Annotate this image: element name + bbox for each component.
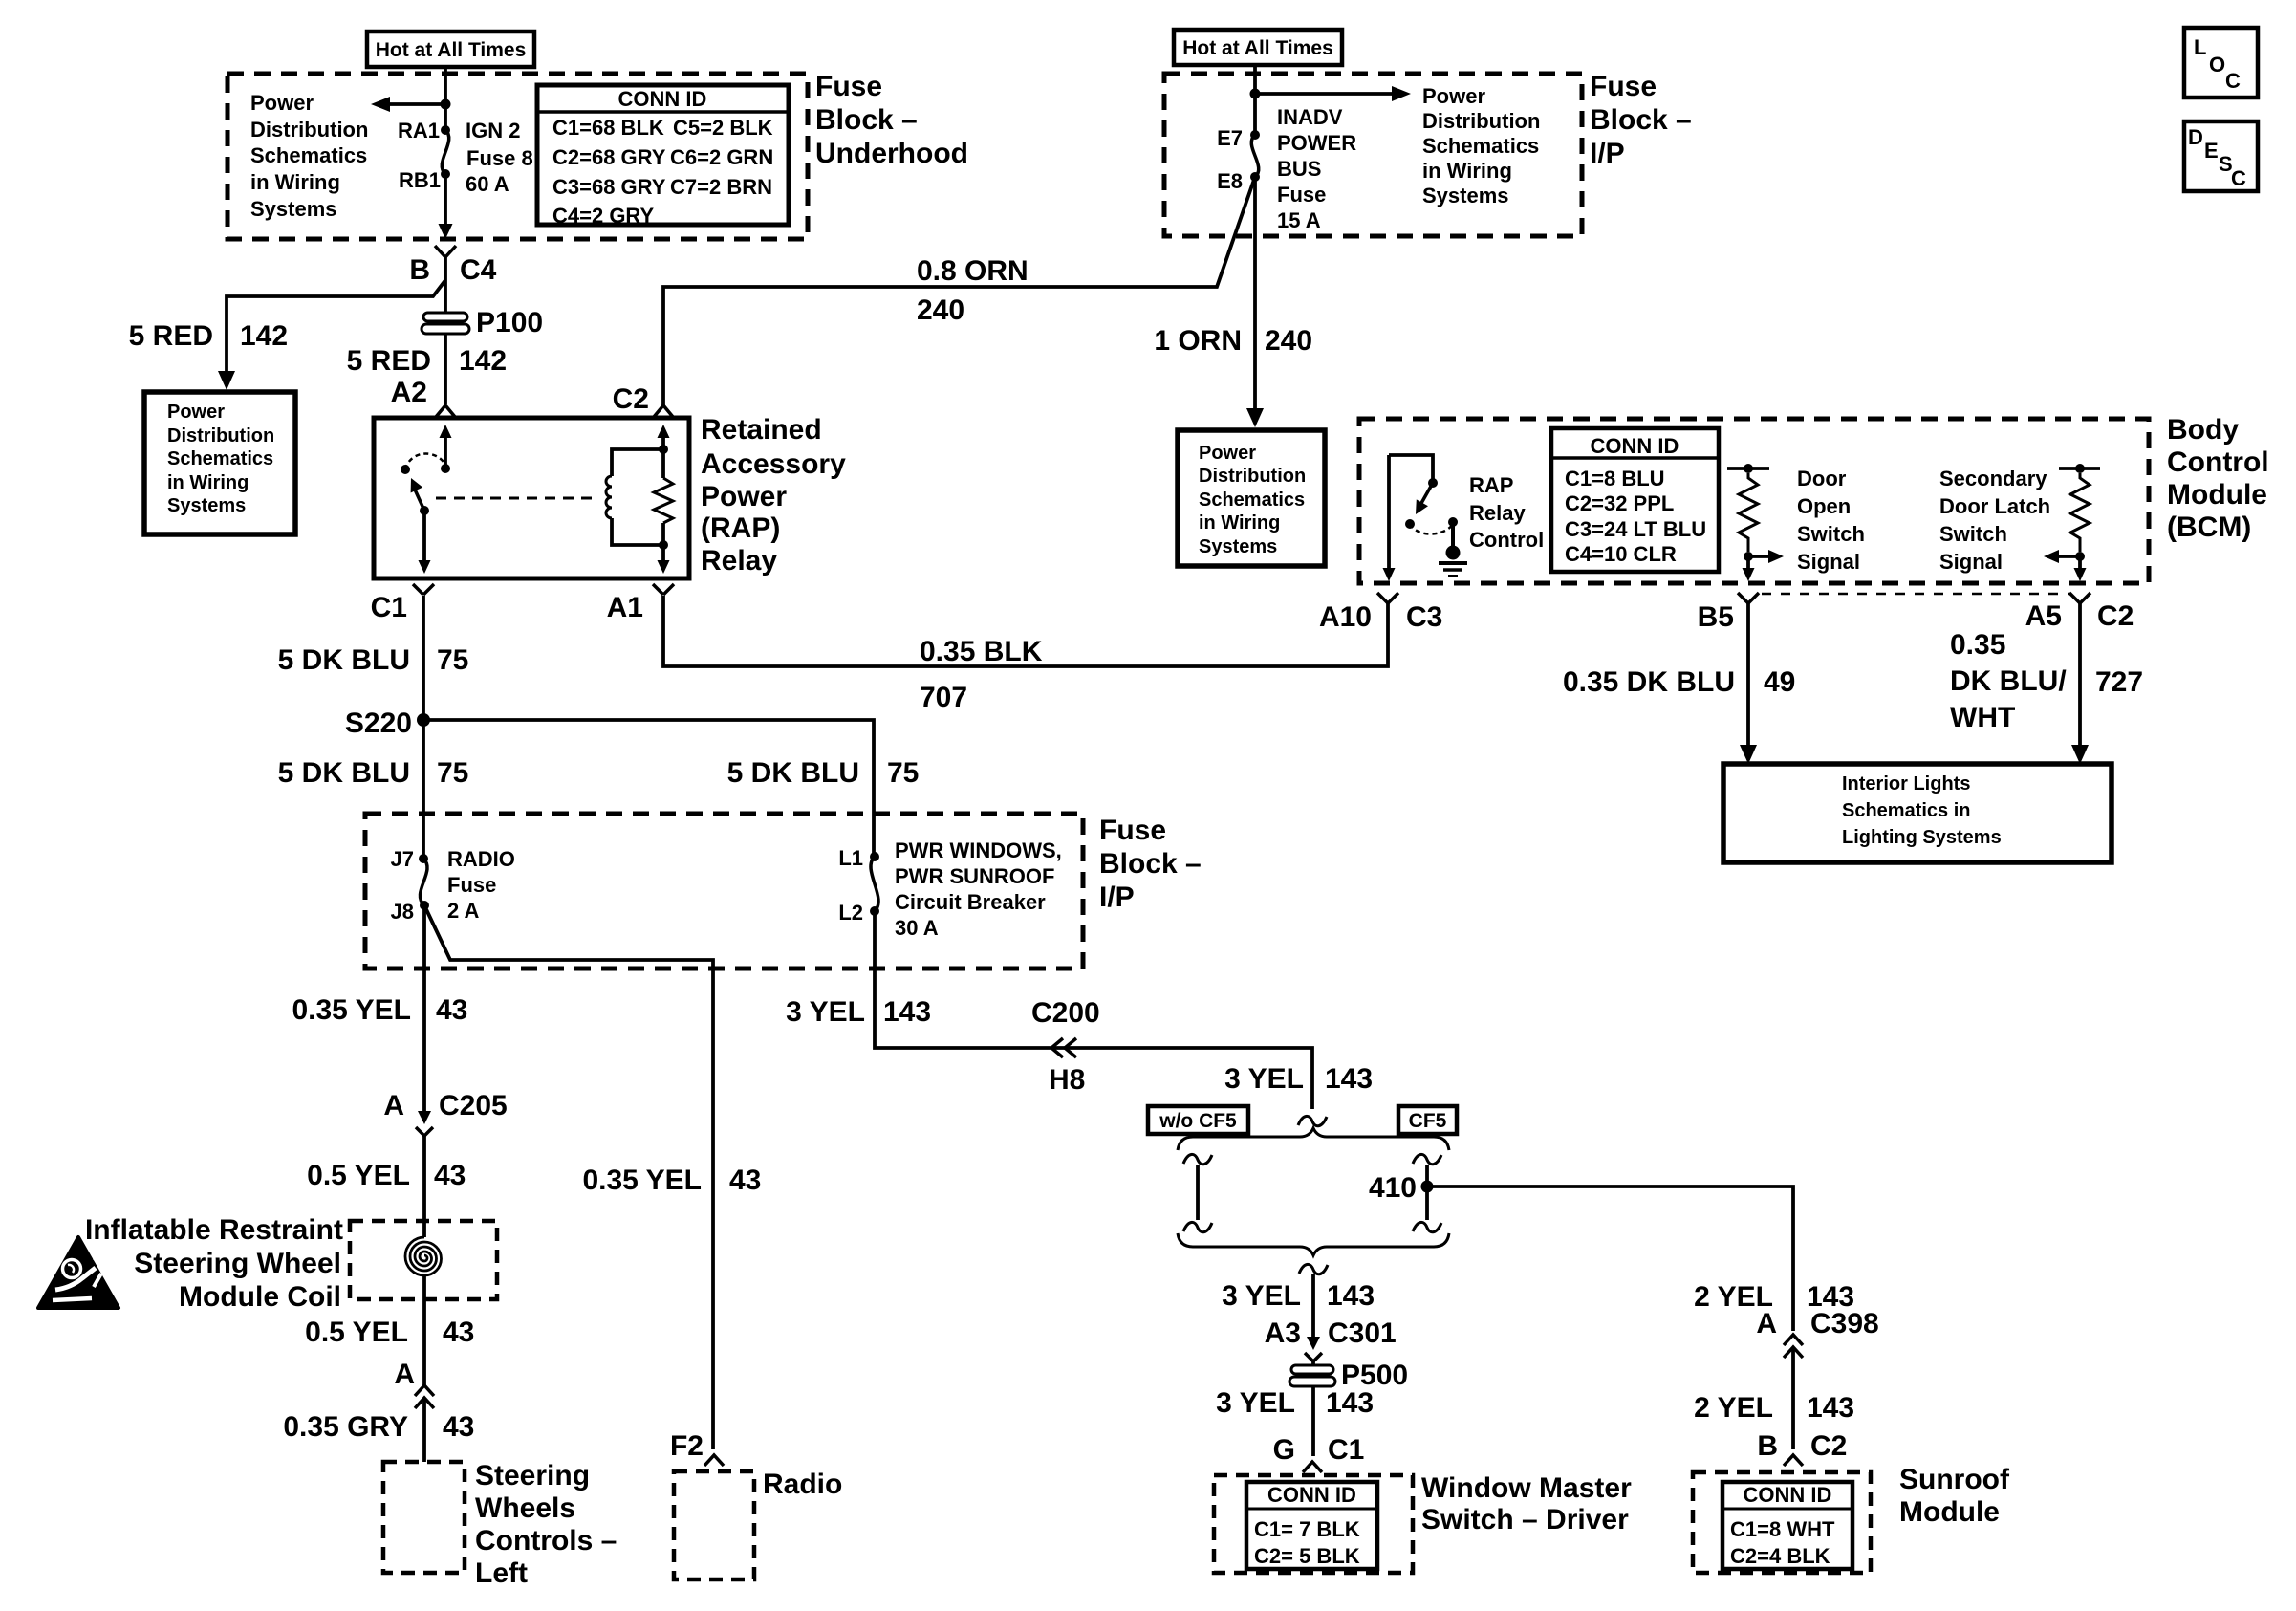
svg-text:CONN ID: CONN ID xyxy=(1744,1483,1832,1507)
wire C1 to S220 to J7 (5 DK BLU 75) xyxy=(422,596,425,859)
node RAP control pivot xyxy=(1405,519,1415,529)
svg-text:Distribution: Distribution xyxy=(167,425,274,446)
svg-text:C1: C1 xyxy=(1328,1434,1364,1466)
svg-text:C2=4 BLK: C2=4 BLK xyxy=(1730,1544,1830,1568)
node switch common xyxy=(441,464,450,473)
svg-text:Systems: Systems xyxy=(1199,536,1277,557)
wire 0.8 ORN 240 xyxy=(663,177,1255,405)
svg-text:Module: Module xyxy=(2167,479,2267,511)
door open switch resistor xyxy=(1727,467,1769,470)
splice 410 xyxy=(1421,1181,1434,1193)
wire J8 to radio (0.35 YEL 43) xyxy=(424,905,713,1449)
pin L1 xyxy=(870,852,879,861)
door open switch signal arrow xyxy=(1748,555,1774,558)
wire 0.35 DK BLU 49 xyxy=(1746,603,1750,751)
svg-text:0.35 BLK: 0.35 BLK xyxy=(920,636,1043,667)
switch blade with arrow xyxy=(415,490,424,511)
svg-text:Fuse: Fuse xyxy=(1099,815,1166,846)
wire B5 out of BCM xyxy=(1746,556,1750,570)
svg-text:Fuse: Fuse xyxy=(1277,183,1326,207)
svg-text:Door: Door xyxy=(1797,467,1847,490)
pin J7 xyxy=(419,854,428,863)
connector C200 H8 xyxy=(1051,1038,1063,1057)
svg-text:707: 707 xyxy=(920,682,967,713)
svg-text:Underhood: Underhood xyxy=(815,138,968,169)
RAP control coil stem xyxy=(1448,517,1458,527)
connector B5 xyxy=(1738,593,1759,603)
svg-text:CONN ID: CONN ID xyxy=(1267,1483,1356,1507)
svg-text:Retained: Retained xyxy=(701,414,822,446)
fuse RADIO 2A xyxy=(420,859,427,905)
svg-text:Switch – Driver: Switch – Driver xyxy=(1421,1504,1629,1535)
label box LOC xyxy=(2184,28,2258,98)
svg-text:Signal: Signal xyxy=(1939,550,2003,574)
warning triangle airbag icon xyxy=(38,1237,119,1308)
wire L2 to C200 (3 YEL 143) xyxy=(875,911,1312,1109)
coil module dashed box xyxy=(350,1221,497,1299)
svg-text:Relay: Relay xyxy=(1469,501,1526,525)
svg-text:Fuse 8: Fuse 8 xyxy=(466,146,533,170)
label Hot at All Times (left) xyxy=(367,32,534,67)
option break connector (bottom) xyxy=(1299,1264,1328,1274)
svg-text:240: 240 xyxy=(917,294,964,326)
splice S220 xyxy=(417,713,430,727)
svg-text:Open: Open xyxy=(1797,494,1851,518)
svg-text:142: 142 xyxy=(240,320,288,352)
svg-text:1 ORN: 1 ORN xyxy=(1154,325,1242,357)
svg-text:143: 143 xyxy=(1325,1063,1373,1095)
fuse IGN2 Fuse 8 60A xyxy=(442,130,449,174)
switch throw contact xyxy=(401,465,410,474)
svg-text:I/P: I/P xyxy=(1099,882,1135,913)
svg-text:Block –: Block – xyxy=(815,104,918,136)
option break connector xyxy=(1298,1116,1327,1125)
svg-text:C4: C4 xyxy=(460,254,497,286)
svg-text:in Wiring: in Wiring xyxy=(250,170,340,194)
svg-text:C1=8 BLU: C1=8 BLU xyxy=(1565,467,1665,490)
svg-text:143: 143 xyxy=(1327,1280,1375,1312)
svg-text:Hot at All Times: Hot at All Times xyxy=(376,39,527,61)
svg-text:C3: C3 xyxy=(1406,601,1442,633)
wire A10 out of BCM xyxy=(1387,455,1391,569)
svg-text:L1: L1 xyxy=(838,846,863,870)
mechanical link dashed xyxy=(436,497,596,500)
svg-text:Schematics: Schematics xyxy=(1422,134,1539,158)
svg-text:Control: Control xyxy=(2167,446,2269,478)
pin RA1 xyxy=(441,125,450,135)
svg-text:Schematics: Schematics xyxy=(167,448,273,469)
svg-text:Steering Wheel: Steering Wheel xyxy=(134,1248,341,1279)
wire to power distribution (left arrow) xyxy=(380,102,445,106)
svg-text:A1: A1 xyxy=(607,592,643,623)
svg-text:2 A: 2 A xyxy=(447,899,480,923)
svg-text:Switch: Switch xyxy=(1939,522,2007,546)
circuit breaker PWR WINDOWS PWR SUNROOF 30A xyxy=(871,857,878,911)
svg-text:Secondary: Secondary xyxy=(1939,467,2047,490)
svg-text:C7=2 BRN: C7=2 BRN xyxy=(670,175,772,199)
svg-text:Distribution: Distribution xyxy=(250,118,368,142)
svg-text:B: B xyxy=(1757,1430,1778,1462)
wire C4 to P100 xyxy=(444,257,447,312)
svg-text:Distribution: Distribution xyxy=(1422,109,1540,133)
wire A5 out of BCM xyxy=(2078,556,2082,570)
svg-text:A5: A5 xyxy=(2025,600,2062,632)
connector table CONN ID (BCM) xyxy=(1551,428,1719,572)
svg-text:15 A: 15 A xyxy=(1277,208,1321,232)
svg-text:C: C xyxy=(2231,166,2246,190)
wire 0.35 BLK 707 xyxy=(663,596,1388,666)
connector table CONN ID (sunroof) xyxy=(1722,1482,1852,1569)
svg-text:75: 75 xyxy=(437,644,468,676)
svg-text:O: O xyxy=(2209,53,2225,76)
svg-text:43: 43 xyxy=(436,994,467,1026)
svg-text:A10: A10 xyxy=(1319,601,1372,633)
svg-text:Power: Power xyxy=(701,481,787,512)
svg-text:J7: J7 xyxy=(391,847,414,871)
svg-text:30 A: 30 A xyxy=(895,916,939,940)
svg-text:Schematics: Schematics xyxy=(250,143,367,167)
svg-text:A2: A2 xyxy=(391,377,427,408)
svg-text:142: 142 xyxy=(459,345,507,377)
pin E8 xyxy=(1250,172,1260,182)
svg-text:D: D xyxy=(2188,125,2203,149)
svg-text:0.8 ORN: 0.8 ORN xyxy=(917,255,1029,287)
svg-text:Inflatable Restraint: Inflatable Restraint xyxy=(85,1214,343,1246)
svg-text:240: 240 xyxy=(1265,325,1312,357)
svg-text:727: 727 xyxy=(2095,666,2143,698)
svg-text:Signal: Signal xyxy=(1797,550,1860,574)
fuse block I/P dashed box xyxy=(1164,74,1582,236)
wire C205 to coil (0.5 YEL 43) xyxy=(422,1136,426,1237)
wire fuse output down xyxy=(444,174,447,224)
svg-text:C301: C301 xyxy=(1328,1317,1397,1349)
svg-text:3 YEL: 3 YEL xyxy=(1224,1063,1304,1095)
wire 410 to sunroof xyxy=(1433,1186,1793,1331)
svg-text:43: 43 xyxy=(443,1317,474,1348)
component box Sunroof Module xyxy=(1693,1472,1871,1573)
svg-text:75: 75 xyxy=(887,757,919,789)
svg-text:in Wiring: in Wiring xyxy=(1422,159,1512,183)
wire J8 down (0.35 YEL 43) xyxy=(422,905,426,1099)
svg-text:5 RED: 5 RED xyxy=(347,345,431,377)
wire pivot to C1 xyxy=(422,511,426,561)
grommet P500 xyxy=(1311,1361,1315,1366)
option branch CF5 stub xyxy=(1413,1154,1441,1164)
svg-text:C4=2 GRY: C4=2 GRY xyxy=(552,204,655,228)
svg-text:Wheels: Wheels xyxy=(475,1492,575,1524)
svg-text:C398: C398 xyxy=(1810,1308,1879,1339)
wire to power distribution (right arrow) xyxy=(1255,92,1401,96)
svg-text:w/o CF5: w/o CF5 xyxy=(1159,1110,1237,1132)
svg-text:Accessory: Accessory xyxy=(701,448,846,480)
svg-text:5 DK BLU: 5 DK BLU xyxy=(278,644,410,676)
brace top xyxy=(1178,1128,1449,1150)
svg-text:75: 75 xyxy=(437,757,468,789)
pin RB1 xyxy=(441,169,450,179)
svg-text:Power: Power xyxy=(250,91,314,115)
svg-text:WHT: WHT xyxy=(1950,702,2015,733)
pin J8 xyxy=(420,901,429,910)
svg-text:Power: Power xyxy=(1422,84,1485,108)
svg-text:143: 143 xyxy=(883,996,931,1028)
svg-text:Switch: Switch xyxy=(1797,522,1865,546)
svg-text:E8: E8 xyxy=(1217,169,1243,193)
svg-text:C5=2 BLK: C5=2 BLK xyxy=(673,116,773,140)
switch travel dashed arc xyxy=(405,454,445,469)
svg-text:A: A xyxy=(383,1090,404,1121)
svg-text:I/P: I/P xyxy=(1590,138,1625,169)
svg-text:0.35: 0.35 xyxy=(1950,629,2005,661)
svg-text:A: A xyxy=(394,1359,415,1390)
relay coil node bottom xyxy=(659,540,668,550)
reference box interior lights schematics xyxy=(1723,764,2112,862)
component box Steering Wheels Controls - Left xyxy=(383,1462,465,1573)
relay coil node top xyxy=(659,445,668,454)
svg-text:Interior Lights: Interior Lights xyxy=(1842,773,1970,795)
svg-text:Relay: Relay xyxy=(701,545,777,577)
svg-text:E7: E7 xyxy=(1217,126,1243,150)
svg-text:Systems: Systems xyxy=(1422,184,1509,207)
svg-text:F2: F2 xyxy=(670,1430,704,1462)
svg-text:C1= 7 BLK: C1= 7 BLK xyxy=(1254,1517,1360,1541)
svg-text:3 YEL: 3 YEL xyxy=(1222,1280,1301,1312)
svg-text:Radio: Radio xyxy=(763,1469,842,1500)
svg-text:C2= 5 BLK: C2= 5 BLK xyxy=(1254,1544,1360,1568)
svg-text:POWER: POWER xyxy=(1277,131,1356,155)
svg-text:C205: C205 xyxy=(439,1090,508,1121)
svg-text:0.35 YEL: 0.35 YEL xyxy=(292,994,411,1026)
svg-text:0.35 YEL: 0.35 YEL xyxy=(582,1165,702,1196)
wire coil to A1 xyxy=(661,545,665,561)
svg-text:Fuse: Fuse xyxy=(815,71,882,102)
connector B C4 xyxy=(435,246,456,257)
svg-text:Lighting Systems: Lighting Systems xyxy=(1842,827,2002,848)
node junction I/P xyxy=(1250,89,1261,99)
wire hot feed into fuse block xyxy=(444,67,447,130)
secondary door latch switch resistor xyxy=(2059,467,2100,470)
svg-text:Schematics: Schematics xyxy=(1199,490,1305,511)
option branch w/o CF5 stub xyxy=(1183,1154,1212,1164)
relay switch common arrow (A2 in) xyxy=(444,436,447,468)
svg-text:5 RED: 5 RED xyxy=(129,320,213,352)
svg-text:Circuit Breaker: Circuit Breaker xyxy=(895,890,1046,914)
svg-text:P100: P100 xyxy=(476,307,543,338)
label box DESC xyxy=(2184,121,2258,191)
svg-text:C3=24 LT BLU: C3=24 LT BLU xyxy=(1565,517,1706,541)
wire S220 branch to L1 xyxy=(423,720,874,857)
wire P100 to relay A2 xyxy=(444,335,447,404)
svg-text:2 YEL: 2 YEL xyxy=(1694,1392,1773,1424)
svg-text:B: B xyxy=(409,254,430,286)
svg-text:B5: B5 xyxy=(1698,601,1734,633)
svg-text:3 YEL: 3 YEL xyxy=(786,996,865,1028)
BCM internal thin dashed edge between B5 and A5 xyxy=(1762,593,2069,596)
svg-text:C4=10 CLR: C4=10 CLR xyxy=(1565,542,1677,566)
svg-text:3 YEL: 3 YEL xyxy=(1216,1387,1295,1419)
svg-text:C2: C2 xyxy=(613,383,649,415)
label box CF5 xyxy=(1398,1106,1457,1134)
component box Radio xyxy=(674,1471,754,1579)
svg-text:143: 143 xyxy=(1807,1392,1854,1424)
svg-text:0.5 YEL: 0.5 YEL xyxy=(307,1160,410,1191)
svg-text:Sunroof: Sunroof xyxy=(1899,1464,2010,1495)
label box w/o CF5 xyxy=(1148,1106,1248,1134)
svg-text:Body: Body xyxy=(2167,414,2239,446)
svg-text:RA1: RA1 xyxy=(398,119,440,142)
connector A5 C2 xyxy=(2069,593,2090,603)
svg-text:0.35 GRY: 0.35 GRY xyxy=(283,1411,408,1443)
svg-text:Door Latch: Door Latch xyxy=(1939,494,2050,518)
svg-text:IGN 2: IGN 2 xyxy=(466,119,520,142)
svg-text:CF5: CF5 xyxy=(1409,1110,1447,1132)
svg-text:Block –: Block – xyxy=(1590,104,1692,136)
component box Window Master Switch - Driver xyxy=(1214,1475,1413,1573)
svg-text:CONN ID: CONN ID xyxy=(618,87,707,111)
svg-text:Module: Module xyxy=(1899,1496,2000,1528)
svg-text:G: G xyxy=(1273,1434,1295,1466)
svg-text:C1=8 WHT: C1=8 WHT xyxy=(1730,1517,1835,1541)
svg-text:in Wiring: in Wiring xyxy=(1199,512,1280,533)
grommet P100 xyxy=(423,313,467,321)
svg-text:410: 410 xyxy=(1369,1172,1417,1204)
svg-text:RB1: RB1 xyxy=(399,168,441,192)
svg-text:Hot at All Times: Hot at All Times xyxy=(1182,37,1333,59)
svg-text:143: 143 xyxy=(1326,1387,1374,1419)
connector table CONN ID (window) xyxy=(1246,1482,1377,1569)
svg-text:CONN ID: CONN ID xyxy=(1591,434,1679,458)
node switch pivot xyxy=(420,506,429,515)
wire C398 to sunroof (2 YEL 143) xyxy=(1791,1347,1795,1449)
svg-text:C1: C1 xyxy=(371,592,407,623)
svg-text:INADV: INADV xyxy=(1277,105,1343,129)
svg-text:Left: Left xyxy=(475,1557,528,1589)
ground symbol xyxy=(1446,546,1461,560)
svg-text:Window Master: Window Master xyxy=(1421,1472,1632,1504)
svg-text:49: 49 xyxy=(1764,666,1795,698)
wire to C301 (3 YEL 143) xyxy=(1311,1274,1315,1337)
RAP relay control switch in BCM xyxy=(1389,455,1433,480)
svg-text:J8: J8 xyxy=(391,900,414,924)
svg-text:BUS: BUS xyxy=(1277,157,1321,181)
svg-text:5 DK BLU: 5 DK BLU xyxy=(278,757,410,789)
svg-text:E: E xyxy=(2204,139,2219,163)
relay coil branch xyxy=(612,449,663,476)
svg-text:RADIO: RADIO xyxy=(447,847,515,871)
svg-text:Control: Control xyxy=(1469,528,1544,552)
wire coil to A conn (0.5 YEL 43) xyxy=(422,1275,426,1386)
svg-text:C2: C2 xyxy=(1810,1430,1847,1462)
wire 1 ORN 240 xyxy=(1253,177,1257,409)
svg-text:Module Coil: Module Coil xyxy=(179,1281,341,1313)
connector A10 C3 xyxy=(1377,593,1398,603)
svg-text:PWR SUNROOF: PWR SUNROOF xyxy=(895,864,1054,888)
svg-text:C: C xyxy=(2225,69,2241,93)
svg-text:43: 43 xyxy=(434,1160,466,1191)
svg-text:Block –: Block – xyxy=(1099,848,1202,880)
svg-text:Schematics in: Schematics in xyxy=(1842,800,1971,821)
svg-text:C2=68 GRY: C2=68 GRY xyxy=(552,145,666,169)
svg-text:PWR WINDOWS,: PWR WINDOWS, xyxy=(895,838,1062,862)
svg-text:Steering: Steering xyxy=(475,1460,590,1491)
fuse block I/P dashed box (radio/breaker) xyxy=(365,814,1083,969)
svg-text:DK BLU/: DK BLU/ xyxy=(1950,665,2067,697)
svg-text:(BCM): (BCM) xyxy=(2167,512,2251,543)
svg-text:C1=68 BLK: C1=68 BLK xyxy=(552,116,664,140)
wire 0.35 DK BLU/WHT 727 xyxy=(2078,603,2082,751)
svg-text:43: 43 xyxy=(443,1411,474,1443)
svg-text:Power: Power xyxy=(1199,443,1256,464)
svg-text:L2: L2 xyxy=(838,901,863,925)
svg-text:C2=32 PPL: C2=32 PPL xyxy=(1565,491,1674,515)
svg-text:60 A: 60 A xyxy=(466,172,509,196)
node junction to power distribution arrow xyxy=(441,99,451,110)
RAP control dashed arc xyxy=(1410,524,1453,534)
svg-text:Systems: Systems xyxy=(250,197,337,221)
svg-text:C3=68 GRY: C3=68 GRY xyxy=(552,175,666,199)
svg-text:(RAP): (RAP) xyxy=(701,512,780,544)
svg-text:C2: C2 xyxy=(2097,600,2134,632)
pin C1 xyxy=(413,584,434,595)
svg-text:5 DK BLU: 5 DK BLU xyxy=(727,757,859,789)
pin E7 xyxy=(1250,130,1260,140)
pin A1 xyxy=(653,584,674,595)
reference box power distribution schematics (right) xyxy=(1178,430,1325,566)
connector table CONN ID (underhood) xyxy=(537,85,789,225)
label Hot at All Times (right) xyxy=(1174,30,1342,65)
relay RAP box xyxy=(374,418,689,578)
svg-text:L: L xyxy=(2194,35,2206,59)
pin L2 xyxy=(870,906,879,916)
svg-text:Fuse: Fuse xyxy=(1590,71,1657,102)
reference box power distribution schematics (left) xyxy=(144,392,295,534)
wire branch 5 RED 142 to left xyxy=(227,280,445,373)
BCM dashed box xyxy=(1359,419,2149,583)
svg-text:Systems: Systems xyxy=(167,495,246,516)
clockspring coil symbol xyxy=(405,1237,442,1275)
secondary door latch arrow xyxy=(2053,555,2080,558)
svg-text:H8: H8 xyxy=(1049,1064,1085,1096)
brace bottom xyxy=(1178,1233,1449,1255)
svg-text:S220: S220 xyxy=(345,708,412,739)
fuse block underhood dashed box xyxy=(227,74,808,239)
svg-text:Controls –: Controls – xyxy=(475,1525,617,1557)
svg-text:0.5 YEL: 0.5 YEL xyxy=(305,1317,408,1348)
svg-text:0.35 DK BLU: 0.35 DK BLU xyxy=(1563,666,1735,698)
fuse INADV POWER BUS 15A xyxy=(1251,135,1259,177)
svg-text:Power: Power xyxy=(167,402,225,423)
svg-text:Distribution: Distribution xyxy=(1199,466,1306,487)
svg-text:Fuse: Fuse xyxy=(447,873,496,897)
wire 0.35 GRY 43 xyxy=(422,1398,426,1462)
svg-text:RAP: RAP xyxy=(1469,473,1513,497)
wire hot feed I/P xyxy=(1253,65,1257,135)
svg-text:A3: A3 xyxy=(1265,1317,1301,1349)
svg-text:C6=2 GRN: C6=2 GRN xyxy=(670,145,773,169)
resistor in relay xyxy=(661,436,665,478)
svg-text:in Wiring: in Wiring xyxy=(167,472,249,493)
svg-text:43: 43 xyxy=(729,1165,761,1196)
wire P500 to window switch (3 YEL 143) xyxy=(1311,1387,1315,1456)
svg-text:A: A xyxy=(1756,1308,1777,1339)
svg-text:C200: C200 xyxy=(1031,997,1100,1029)
